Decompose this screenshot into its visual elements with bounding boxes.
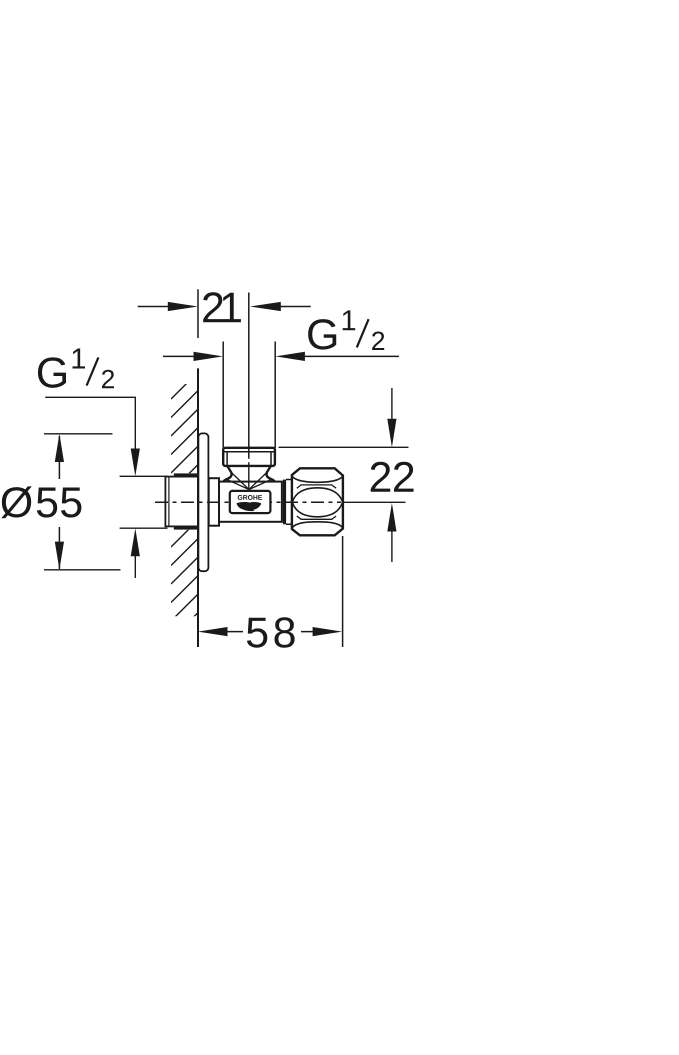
- label plate: [230, 491, 271, 513]
- dimension D55 line: [58, 436, 60, 569]
- horizontal centerline: [155, 501, 341, 503]
- D55 extension lines: [44, 434, 121, 570]
- top nut outline: [223, 448, 275, 466]
- GROHE swoosh: [237, 502, 262, 511]
- dimension 58 text: [247, 617, 295, 647]
- G1/2 top left arrow: [194, 352, 224, 361]
- dimension 58 line: [225, 631, 315, 633]
- funnel right outline: [266, 466, 274, 481]
- hex nut bottom chamfer arc: [292, 522, 342, 528]
- G1/2 left leader: [45, 397, 135, 450]
- dimension 22 extension top: [279, 446, 409, 448]
- thread end relief line: [168, 477, 170, 526]
- washer bar: [283, 480, 286, 525]
- hex nut upper lens arc: [292, 488, 342, 502]
- dimension 21 text: [203, 292, 241, 322]
- extension line: valve vertical axis above: [248, 293, 250, 459]
- dimension 21 right arrow: [250, 302, 281, 311]
- dimension 22 down arrow: [387, 419, 396, 448]
- D55 up arrow: [55, 434, 64, 462]
- escutcheon flange: [198, 433, 208, 571]
- neck collar: [209, 478, 219, 526]
- dimension 58 right arrow: [313, 627, 343, 636]
- GROHE wordmark: [238, 495, 262, 500]
- hex nut top facet line: [297, 485, 336, 488]
- thread crest bottom band: [174, 526, 198, 530]
- dimension 58 right extension: [342, 536, 344, 647]
- G1/2 top label: [308, 310, 384, 350]
- D55 down arrow: [55, 542, 64, 570]
- G1/2 left up arrow shaft: [134, 554, 136, 578]
- vertical centerline through funnel: [248, 462, 250, 489]
- valve body: [219, 482, 282, 522]
- G1/2 left down arrow: [131, 449, 140, 477]
- G1/2 left extension lines: [120, 476, 168, 528]
- wall thread block: [165, 477, 198, 527]
- extension line: wall (21 dim): [197, 289, 199, 338]
- funnel fan lines: [227, 473, 272, 490]
- top nut chamfer line: [224, 451, 274, 453]
- G1/2 left label: [38, 349, 114, 389]
- dimension 21 left arrow: [168, 302, 198, 311]
- dimension 22 extension bottom: [344, 501, 406, 503]
- dimension G1/2 top line: [163, 355, 399, 357]
- funnel left outline: [224, 466, 232, 481]
- G1/2 top right arrow: [275, 352, 305, 361]
- extension line: top nut right edge: [274, 342, 276, 449]
- wall face line: [197, 368, 199, 647]
- hex nut bottom facet line: [297, 516, 336, 519]
- top nut inner verticals: [227, 452, 271, 466]
- thread crest top band: [174, 473, 198, 477]
- G1/2 left up arrow: [131, 528, 140, 556]
- washer horizontals: [286, 480, 292, 525]
- wall hatching: [171, 372, 199, 640]
- dimension 22 text: [371, 462, 414, 492]
- extension line: top nut left edge: [222, 342, 224, 449]
- dimension 22 up arrow: [387, 503, 396, 532]
- dimension 21 line: [138, 306, 311, 308]
- hex nut top chamfer arc: [292, 477, 342, 483]
- dimension 22 upper shaft: [391, 388, 393, 420]
- dimension D55 text: [1, 486, 32, 518]
- hex nut outline: [292, 468, 343, 535]
- hex nut lower lens arc: [292, 502, 342, 516]
- dimension 22 lower shaft: [391, 530, 393, 562]
- dimension 58 left arrow: [198, 627, 228, 636]
